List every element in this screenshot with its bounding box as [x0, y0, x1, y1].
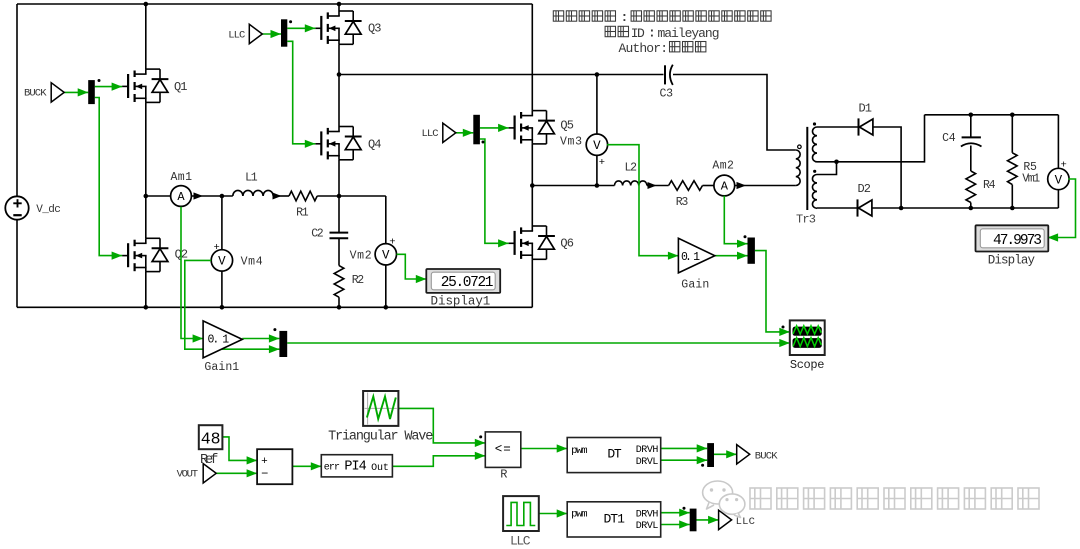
port BUCK input: [24, 83, 64, 102]
inductor L1: [233, 172, 282, 200]
resistor R4: [966, 171, 996, 203]
port tag BUCK out: [737, 445, 778, 464]
svg-text:ID: ID: [631, 26, 645, 41]
arrow LLC tag: [708, 516, 719, 524]
wire R1 to Vm2 branch: [317, 195, 386, 197]
svg-text:+: +: [1061, 160, 1067, 172]
secondary 1 winding: [813, 127, 818, 162]
resistor R3: [669, 181, 703, 209]
svg-text:Vm4: Vm4: [241, 256, 263, 269]
node bridge B: [530, 183, 535, 188]
svg-text:25.0721: 25.0721: [441, 275, 494, 291]
wire Am1 out to L1: [192, 195, 233, 197]
svg-text:pwm: pwm: [571, 445, 588, 457]
wire Q3 drain: [338, 4, 340, 11]
svg-text:DRVL: DRVL: [636, 521, 659, 532]
capacitor C2: [311, 228, 348, 241]
svg-text:C3: C3: [660, 87, 674, 100]
wire output top rail: [925, 114, 1059, 116]
arrow sum plus: [247, 456, 258, 464]
svg-text:D2: D2: [858, 182, 872, 196]
svg-text:Triangular Wave: Triangular Wave: [328, 429, 433, 444]
mux gain1: [273, 328, 287, 357]
svg-text:R4: R4: [983, 179, 996, 192]
demux BUCK: [88, 79, 100, 104]
primary polarity circle: [798, 145, 802, 149]
secondary 2 winding: [812, 175, 817, 209]
node Q3 top: [337, 2, 342, 7]
wire output bottom rail: [872, 207, 1059, 209]
svg-text:Scope: Scope: [790, 358, 825, 372]
svg-text:V_dc: V_dc: [36, 204, 61, 216]
wire left frame upper: [16, 4, 18, 197]
arrow comparator input 1: [475, 439, 486, 447]
wire Triangular Wave to comparator: [398, 408, 485, 443]
node R5 bottom: [1010, 206, 1015, 211]
arrow DT mux in 2: [697, 456, 708, 464]
transistor Q3: [315, 11, 381, 44]
svg-text:−: −: [261, 467, 268, 481]
wire bridge node to C3: [339, 74, 664, 76]
secondary 1 polarity dot: [813, 122, 816, 125]
node junction dots power stage: [144, 2, 600, 310]
node Q1 top: [144, 2, 149, 7]
source pulse LLC: [503, 496, 539, 548]
diode D2: [858, 182, 872, 217]
svg-text:Author:: Author:: [619, 41, 669, 56]
wire Vm1 bottom lead: [1057, 190, 1059, 208]
secondary side black wiring: [817, 115, 1058, 208]
wire DT mux to BUCK tag: [714, 453, 737, 455]
wire C4 to R4: [970, 146, 972, 172]
svg-text:Q3: Q3: [368, 22, 382, 36]
gain Gain: [678, 238, 714, 291]
wire comparator to DT: [521, 448, 567, 450]
wire Q4 source to node: [338, 160, 340, 196]
capacitor C4: [942, 132, 981, 146]
svg-text:BUCK: BUCK: [755, 451, 778, 463]
node buck mid: [144, 194, 149, 199]
svg-text:Display: Display: [988, 254, 1036, 268]
comparator R: [479, 432, 521, 482]
scope Scope: [782, 320, 825, 372]
inductor L2: [615, 162, 657, 190]
wire Vm2 top: [385, 196, 387, 244]
node Vm4 tap: [220, 194, 225, 199]
svg-text:LLC: LLC: [422, 128, 439, 140]
svg-text::: :: [648, 26, 656, 41]
svg-text:47.9973: 47.9973: [993, 233, 1042, 249]
wire Am1 to Gain1: [181, 207, 203, 339]
display Display1: [426, 269, 500, 309]
wire Vm2 bottom: [385, 265, 387, 307]
svg-text:Display1: Display1: [431, 295, 491, 309]
port tag LLC out: [719, 510, 755, 529]
wire Ref to sum: [222, 437, 257, 461]
wire demux to Q2 gate: [95, 98, 122, 256]
capacitor C3: [660, 65, 674, 101]
gain Gain1: [203, 321, 242, 374]
svg-text:R1: R1: [296, 207, 309, 220]
diode D1: [859, 102, 873, 136]
svg-text:Am2: Am2: [712, 160, 734, 173]
arrow comparator input 2: [475, 452, 486, 460]
wire Gain out to mux: [715, 255, 748, 257]
transistor Q1: [122, 69, 187, 102]
svg-text:Am1: Am1: [171, 171, 193, 184]
wire sum to PI: [292, 465, 321, 467]
wire Vm4 top: [221, 196, 223, 250]
svg-text:C2: C2: [311, 228, 324, 241]
wire DT1 DRVH to mux: [661, 512, 690, 514]
wire bottom rail: [17, 306, 532, 308]
display Display: [976, 225, 1049, 267]
wire mux1 to Scope input 2: [287, 342, 790, 344]
wire R4 to rail: [970, 203, 972, 209]
block DT: [567, 438, 661, 473]
wire R5 top lead: [1011, 115, 1013, 153]
arrow DT1 pwm: [557, 509, 568, 517]
ammeter Am1: [171, 171, 204, 206]
svg-text:Out: Out: [371, 463, 389, 474]
PI block PI4: [321, 455, 392, 477]
node rail Q2: [144, 305, 149, 310]
wire demux to Q1 gate: [95, 86, 122, 88]
wire pulse LLC to DT1: [539, 513, 567, 515]
arrow Am2 to mux: [737, 240, 748, 248]
arrow BUCK tag: [726, 450, 737, 458]
node R5 top: [1010, 113, 1015, 118]
wire mux to Scope input 1: [755, 251, 790, 332]
resistor R2: [334, 266, 364, 298]
node rail R2: [337, 305, 342, 310]
constant Ref 48: [199, 425, 223, 468]
arrow sum minus: [247, 469, 258, 477]
svg-text:Gain: Gain: [681, 278, 709, 291]
wire C2 to R2: [338, 239, 340, 266]
wire R5 bottom lead: [1011, 185, 1013, 208]
wire Vm1 top lead: [1057, 115, 1059, 169]
port LLC q3: [228, 24, 262, 43]
svg-text:+: +: [599, 157, 605, 169]
ammeter Am2: [712, 160, 746, 196]
arrow Q3 gate: [305, 24, 316, 32]
port VOUT: [177, 464, 217, 483]
wire demux to Q5 gate: [480, 127, 509, 129]
arrow Gain to mux: [737, 252, 748, 260]
wire Vm4 to mux1: [185, 260, 280, 349]
wire demux to Q3 gate: [287, 27, 315, 29]
svg-text:48: 48: [201, 429, 221, 448]
svg-text:PI4: PI4: [344, 459, 366, 474]
wire center tap: [817, 115, 925, 162]
svg-text:Q1: Q1: [174, 80, 188, 94]
voltmeter Vm4: [211, 242, 262, 271]
mux DT1 out: [683, 507, 697, 532]
arrow Scope input 2: [779, 339, 790, 347]
svg-text:0. 1: 0. 1: [208, 334, 230, 347]
arrow Vm4 to mux1: [269, 345, 280, 353]
svg-text:Vm2: Vm2: [350, 249, 372, 262]
svg-text:Vm1: Vm1: [1022, 173, 1040, 186]
resistor R1: [289, 191, 317, 219]
arrow Gain1 input: [193, 334, 204, 342]
secondary 2 polarity dot: [813, 170, 816, 173]
mux DT out: [701, 443, 714, 467]
wire Q5-Q6 leg: [531, 144, 533, 226]
wire node to Am1: [146, 195, 171, 197]
port LLC q5: [422, 123, 456, 142]
transistor Q5: [509, 111, 574, 144]
wire demux to Q4 gate: [287, 41, 315, 144]
svg-text:D1: D1: [859, 102, 873, 116]
source Triangular Wave: [328, 391, 433, 444]
arrow Scope input 1: [779, 328, 790, 336]
wire top rail: [17, 3, 532, 5]
wire Q3-Q4 leg: [338, 44, 340, 126]
node center tap: [834, 160, 839, 165]
wire Q5 drain: [531, 4, 533, 111]
voltmeter Vm2: [350, 237, 397, 266]
source V_dc: [5, 196, 61, 219]
wire Am2 to mux: [724, 196, 747, 244]
arrow Gain1 to mux1: [269, 334, 280, 342]
svg-text:Vm3: Vm3: [560, 136, 582, 149]
svg-text:0. 1: 0. 1: [681, 251, 700, 264]
svg-text:pwm: pwm: [571, 509, 588, 521]
arrow into LLC demux q3: [271, 30, 282, 38]
svg-text:DRVH: DRVH: [636, 445, 659, 456]
wire LLC port to demux q5: [456, 132, 473, 134]
svg-text:R: R: [500, 468, 507, 482]
node bridge A Vm3: [595, 72, 600, 77]
wire C4 top lead: [970, 115, 972, 137]
demux LLC q5: [473, 115, 484, 145]
svg-text:DRVH: DRVH: [636, 510, 659, 521]
wire Q2 source to rail: [145, 272, 147, 308]
svg-text:Q4: Q4: [368, 138, 382, 152]
transformer Tr3: [796, 122, 817, 226]
arrow Q1 gate: [112, 83, 123, 91]
wire sec2 bottom to D2: [817, 207, 858, 209]
svg-text:C4: C4: [942, 132, 956, 145]
wire C3 to corner: [673, 75, 796, 151]
arrow DT pwm: [557, 444, 568, 452]
node rail Vm4: [220, 305, 225, 310]
voltmeter Vm3: [560, 134, 608, 169]
wire Vm4 bottom: [221, 271, 223, 307]
arrow Display input: [1048, 233, 1059, 241]
svg-text:L1: L1: [245, 172, 258, 185]
arrow Q5 gate: [498, 124, 509, 132]
wire Vm1 to Display: [1048, 179, 1076, 238]
svg-text:DT: DT: [607, 447, 621, 462]
wire demux to Q6 gate: [480, 139, 509, 243]
resistor R5: [1008, 153, 1041, 186]
arrow Display1 input: [416, 275, 427, 283]
wire R3 to Am2: [703, 185, 715, 187]
wire D1 to corner: [873, 127, 901, 208]
svg-text:+: +: [214, 242, 220, 254]
wire LLC port to demux q3: [262, 33, 281, 35]
arrow into BUCK demux: [78, 88, 89, 96]
wire PI to comparator: [392, 456, 485, 467]
wire left frame lower: [16, 220, 18, 308]
svg-text:<=: <=: [495, 442, 511, 456]
svg-text:Q5: Q5: [560, 119, 574, 133]
arrow DT1 mux in 1: [679, 509, 690, 517]
arrow Gain input: [668, 252, 679, 260]
svg-text:Gain1: Gain1: [204, 361, 239, 374]
svg-text:LLC: LLC: [736, 516, 755, 528]
wire DT DRVH to mux: [661, 447, 708, 449]
svg-text:+: +: [389, 237, 395, 249]
svg-text:R2: R2: [352, 274, 365, 287]
arrow DT1 mux in 2: [679, 520, 690, 528]
primary winding: [796, 150, 800, 186]
node R4 bottom: [969, 206, 974, 211]
svg-text:maileyang: maileyang: [658, 26, 720, 41]
wire Am2 to transformer primary: [734, 185, 796, 187]
watermark wechat icon: [703, 481, 745, 518]
wire center tap drop: [817, 162, 837, 175]
arrow Q2 gate: [112, 252, 123, 260]
wire Q2 drain: [145, 196, 147, 238]
header text chinese line 1: [553, 10, 771, 25]
watermark text: [750, 488, 1039, 509]
transistor Q2: [122, 238, 188, 271]
wire R2 to rail: [338, 297, 340, 307]
wire bridge mid rail to L2: [532, 185, 614, 187]
svg-text:DT1: DT1: [604, 512, 626, 527]
wire Q1 source to node: [145, 102, 147, 196]
wire Vm2 to Display1: [397, 254, 427, 279]
demux LLC q3: [281, 19, 292, 46]
node Vm3 bottom: [595, 183, 600, 188]
node C4 top: [969, 113, 974, 118]
wire sec1 top to D1: [817, 126, 859, 128]
wire Vm3 bottom: [596, 155, 598, 186]
svg-text:err: err: [324, 463, 340, 474]
wire L2 to R3: [647, 185, 669, 187]
mux scope1: [744, 235, 755, 263]
arrow Q4 gate: [305, 140, 316, 148]
block DT1: [567, 502, 661, 537]
node rail Vm2: [384, 305, 389, 310]
wire DT1 mux to LLC tag: [697, 519, 719, 521]
node bridge leg A: [337, 72, 342, 77]
svg-text:LLC: LLC: [228, 29, 245, 41]
secondary junction dots: [834, 113, 1014, 211]
wire DT1 DRVL to mux: [661, 524, 690, 526]
wire Q6 source to rail: [531, 259, 533, 307]
arrow DT mux in 1: [697, 444, 708, 452]
header text chinese line 2: [605, 26, 719, 41]
wire BUCK port to demux: [64, 91, 88, 93]
svg-text:BUCK: BUCK: [24, 88, 47, 100]
svg-text:VOUT: VOUT: [177, 468, 198, 480]
wire Vm3 to Gain: [607, 145, 679, 256]
wire L1 to R1: [273, 195, 289, 197]
core: [806, 127, 808, 210]
arrow PI input: [311, 462, 322, 470]
node D1 D2 join: [899, 206, 904, 211]
wire Q1 drain: [145, 4, 147, 69]
arrow Q6 gate: [498, 239, 509, 247]
transistor Q6: [509, 226, 574, 259]
voltmeter Vm1: [1048, 160, 1069, 190]
wire DT DRVL to mux: [661, 459, 708, 461]
sum block: [257, 449, 292, 484]
svg-text:L2: L2: [625, 162, 638, 175]
svg-text:DRVL: DRVL: [636, 457, 659, 468]
wire Vm3 top: [596, 75, 598, 135]
header text chinese line 3: [619, 41, 706, 56]
svg-text:R3: R3: [676, 196, 689, 209]
svg-text::: :: [621, 10, 629, 25]
wire VOUT to sum: [216, 472, 257, 474]
node buck out: [337, 194, 342, 199]
wire Gain1 out to mux1: [242, 338, 279, 340]
svg-text:Tr3: Tr3: [796, 213, 816, 227]
svg-text:LLC: LLC: [510, 533, 531, 548]
wire C2 top lead: [338, 196, 340, 232]
transistor Q4: [315, 127, 381, 160]
svg-text:Q6: Q6: [560, 237, 574, 251]
arrow into LLC demux q5: [463, 129, 474, 137]
